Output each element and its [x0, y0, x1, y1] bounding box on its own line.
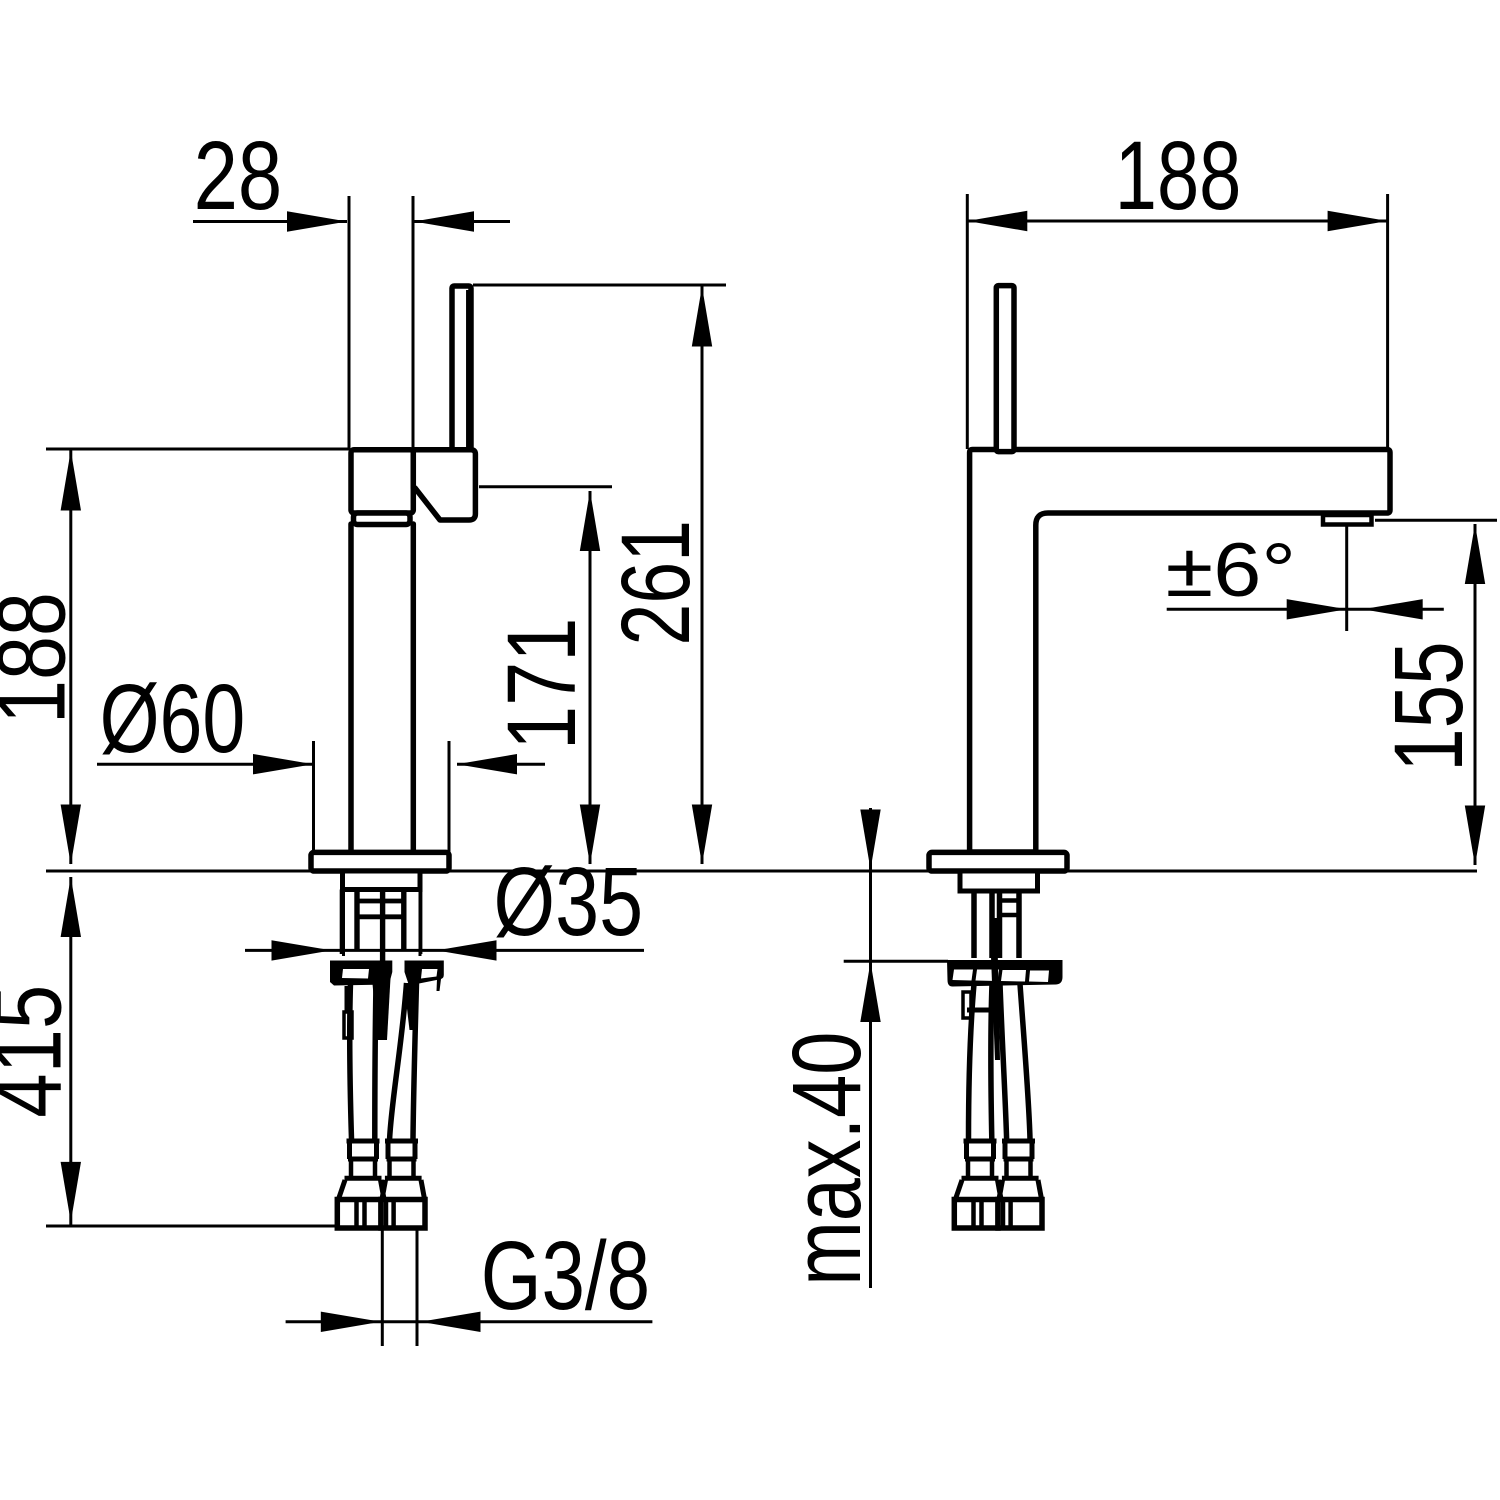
svg-text:415: 415	[0, 985, 82, 1118]
svg-text:28: 28	[194, 121, 283, 230]
svg-text:171: 171	[487, 618, 596, 750]
svg-text:188: 188	[1115, 121, 1242, 230]
svg-text:max.40: max.40	[772, 1032, 881, 1286]
svg-text:Ø35: Ø35	[494, 847, 644, 956]
svg-text:188: 188	[0, 592, 86, 724]
svg-text:155: 155	[1374, 641, 1483, 772]
svg-text:±6°: ±6°	[1166, 528, 1296, 613]
svg-text:Ø60: Ø60	[100, 664, 246, 773]
svg-text:261: 261	[601, 520, 710, 646]
svg-text:G3/8: G3/8	[481, 1221, 650, 1330]
